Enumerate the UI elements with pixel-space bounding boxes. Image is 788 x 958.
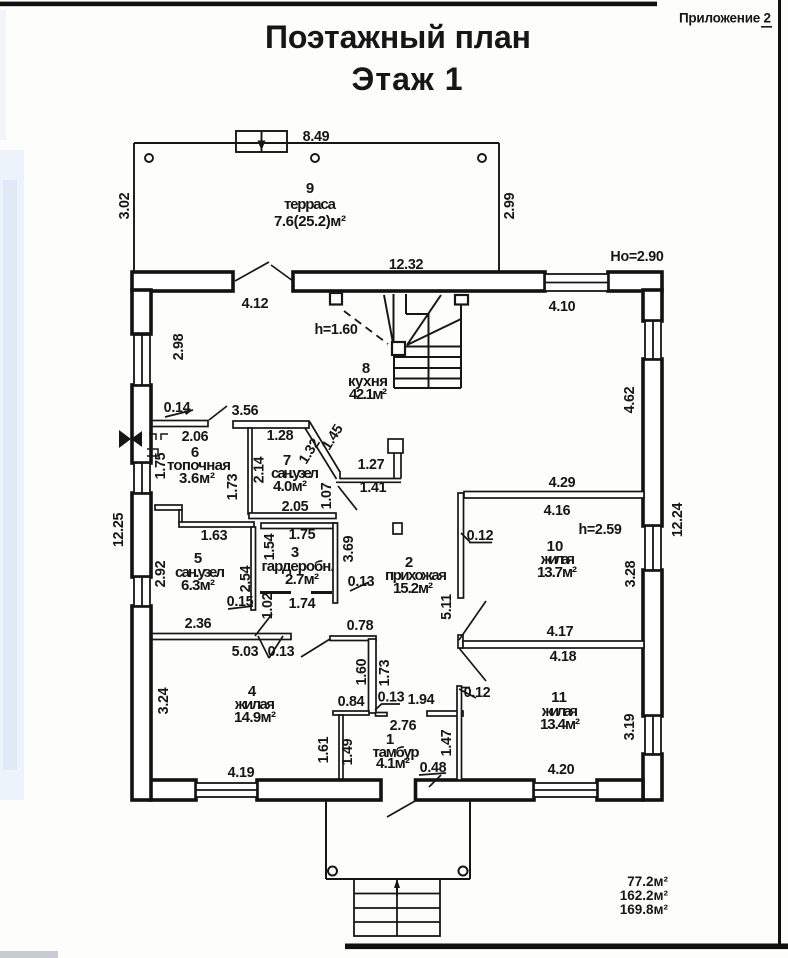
svg-text:1.60: 1.60 xyxy=(354,658,370,685)
svg-text:4.12: 4.12 xyxy=(242,296,269,312)
svg-text:4.19: 4.19 xyxy=(228,765,255,781)
svg-text:2.99: 2.99 xyxy=(502,192,518,219)
svg-text:1.02: 1.02 xyxy=(260,592,276,619)
svg-text:3.56: 3.56 xyxy=(232,403,259,419)
svg-text:1.47: 1.47 xyxy=(439,729,455,756)
svg-text:2.7м²: 2.7м² xyxy=(285,571,319,588)
svg-text:1.94: 1.94 xyxy=(408,692,435,708)
svg-text:Этаж 1: Этаж 1 xyxy=(352,61,463,97)
svg-text:Приложение 2: Приложение 2 xyxy=(679,11,771,26)
svg-text:h=2.59: h=2.59 xyxy=(578,522,621,538)
svg-text:3.24: 3.24 xyxy=(156,687,172,714)
svg-text:0.12: 0.12 xyxy=(467,528,494,544)
svg-text:0.14: 0.14 xyxy=(164,400,191,416)
svg-text:3.69: 3.69 xyxy=(341,535,357,562)
svg-text:3.6м²: 3.6м² xyxy=(179,470,215,487)
svg-text:0.13: 0.13 xyxy=(348,574,375,590)
svg-text:1.54: 1.54 xyxy=(262,533,278,560)
svg-text:5.11: 5.11 xyxy=(439,594,455,620)
svg-text:14.9м²: 14.9м² xyxy=(234,709,276,726)
svg-text:0.48: 0.48 xyxy=(420,760,447,776)
svg-text:0.13: 0.13 xyxy=(378,690,405,706)
svg-text:4.29: 4.29 xyxy=(549,475,576,491)
svg-text:4.17: 4.17 xyxy=(547,624,574,640)
svg-text:12.25: 12.25 xyxy=(111,513,127,548)
svg-text:15.2м²: 15.2м² xyxy=(393,580,433,597)
svg-text:1.27: 1.27 xyxy=(358,457,385,473)
svg-text:8.49: 8.49 xyxy=(303,129,330,145)
svg-text:4.0м²: 4.0м² xyxy=(273,478,307,495)
svg-text:4.62: 4.62 xyxy=(622,386,638,413)
svg-text:0.15: 0.15 xyxy=(227,594,254,610)
svg-text:12.24: 12.24 xyxy=(670,503,686,538)
svg-text:9: 9 xyxy=(306,180,314,197)
svg-text:2.98: 2.98 xyxy=(171,333,187,360)
svg-text:162.2м²: 162.2м² xyxy=(620,888,669,903)
svg-text:169.8м²: 169.8м² xyxy=(620,902,669,917)
svg-text:2.92: 2.92 xyxy=(153,560,169,587)
svg-text:13.4м²: 13.4м² xyxy=(540,716,580,733)
svg-text:2.05: 2.05 xyxy=(282,499,309,515)
svg-text:0.13: 0.13 xyxy=(268,644,295,660)
svg-text:1.73: 1.73 xyxy=(225,473,241,500)
svg-text:4.18: 4.18 xyxy=(550,649,577,665)
svg-text:h=1.60: h=1.60 xyxy=(314,322,357,338)
svg-text:4.16: 4.16 xyxy=(544,503,571,519)
svg-text:0.84: 0.84 xyxy=(338,694,365,710)
svg-text:3.02: 3.02 xyxy=(117,192,133,219)
svg-text:12.32: 12.32 xyxy=(389,257,424,273)
svg-text:1.07: 1.07 xyxy=(319,482,335,509)
svg-text:2.06: 2.06 xyxy=(182,429,209,445)
svg-text:3.19: 3.19 xyxy=(622,713,638,740)
svg-text:77.2м²: 77.2м² xyxy=(627,874,668,889)
svg-text:2.36: 2.36 xyxy=(185,616,212,632)
svg-text:42.1м²: 42.1м² xyxy=(349,386,387,403)
svg-text:Поэтажный план: Поэтажный план xyxy=(265,19,531,55)
svg-text:1.75: 1.75 xyxy=(289,527,316,543)
svg-text:1.74: 1.74 xyxy=(289,596,316,612)
svg-text:4.10: 4.10 xyxy=(549,299,576,315)
svg-text:1.73: 1.73 xyxy=(377,659,393,686)
svg-text:1.28: 1.28 xyxy=(267,428,294,444)
svg-text:0.12: 0.12 xyxy=(464,685,491,701)
svg-text:терраса: терраса xyxy=(284,196,337,213)
svg-text:4.1м²: 4.1м² xyxy=(376,755,410,772)
svg-text:5.03: 5.03 xyxy=(232,644,259,660)
svg-text:2.14: 2.14 xyxy=(252,456,268,483)
svg-text:4.20: 4.20 xyxy=(548,762,575,778)
svg-text:0.78: 0.78 xyxy=(347,618,374,634)
svg-text:1.61: 1.61 xyxy=(316,736,332,763)
svg-text:1.41: 1.41 xyxy=(360,480,387,496)
svg-text:6.3м²: 6.3м² xyxy=(181,577,215,594)
svg-text:13.7м²: 13.7м² xyxy=(537,564,577,581)
svg-text:1.49: 1.49 xyxy=(340,738,356,765)
svg-text:Но=2.90: Но=2.90 xyxy=(610,249,663,265)
svg-text:1.63: 1.63 xyxy=(201,528,228,544)
svg-text:2.54: 2.54 xyxy=(238,565,254,592)
svg-text:3.28: 3.28 xyxy=(623,560,639,587)
svg-text:7.6(25.2)м²: 7.6(25.2)м² xyxy=(274,213,346,230)
